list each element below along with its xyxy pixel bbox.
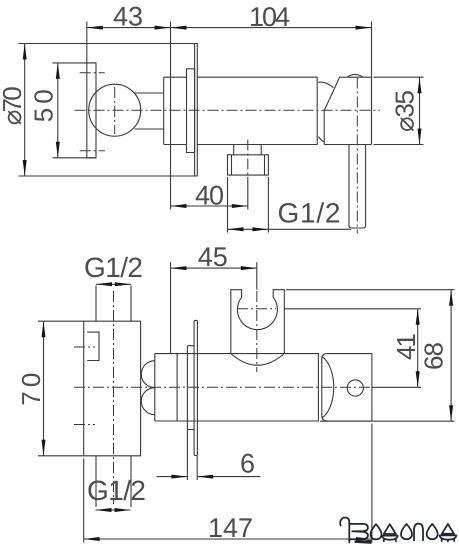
- logo letter a triangle-dish2: [442, 524, 454, 534]
- hex facet lines: [232, 155, 265, 175]
- svg-text:68: 68: [419, 342, 449, 370]
- valve body vertical centerline: [113, 291, 115, 504]
- svg-text:G1/2: G1/2: [278, 198, 341, 229]
- holder horizontal centerline: [237, 308, 276, 310]
- elbow hemisphere arc: [322, 357, 334, 419]
- svg-text:147: 147: [208, 513, 253, 543]
- logo letter g arch: [414, 524, 423, 541]
- dimension 40 line: [171, 204, 248, 208]
- body cylinder front: [177, 354, 318, 421]
- holder saddle arc: [231, 354, 284, 366]
- plate screw tick upper: [80, 72, 105, 74]
- logo letter o drop2: [401, 524, 412, 539]
- extension line holder right end: [371, 22, 373, 145]
- knob stem lower line: [135, 128, 164, 130]
- flange disc 2: [187, 69, 195, 153]
- extension lines 70: [38, 320, 84, 322]
- knob stem upper line: [135, 92, 164, 94]
- swivel ball lower: [141, 388, 155, 415]
- extension line 147 right: [371, 424, 373, 543]
- sprayer top button arc: [347, 74, 363, 77]
- svg-text:⌀70: ⌀70: [0, 86, 27, 125]
- elbow end piece: [322, 354, 372, 421]
- logo letter V bowl: [349, 524, 368, 539]
- wall plate lower view: [194, 320, 197, 455]
- svg-text:41: 41: [391, 333, 421, 360]
- dimension 6: [157, 475, 261, 479]
- knob ball vertical centerline: [114, 87, 116, 134]
- outlet hex nut: [228, 155, 269, 175]
- centerline extension to dim41: [372, 386, 421, 388]
- outlet neck: [234, 145, 262, 155]
- sprayer head nose arc bottom: [318, 137, 323, 142]
- svg-text:6: 6: [240, 449, 255, 479]
- dimension 147 line: [84, 537, 372, 541]
- extension lines 50: [53, 62, 97, 64]
- flange disc d70: [195, 44, 198, 177]
- dimension 45 line: [171, 266, 257, 270]
- logo letter l triangle-dish1: [384, 524, 396, 534]
- sprayer head nose arc top: [318, 82, 333, 88]
- plate screw tick lower: [80, 150, 105, 152]
- svg-text:45: 45: [198, 242, 228, 272]
- svg-text:G1/2: G1/2: [87, 475, 146, 506]
- svg-text:43: 43: [113, 2, 143, 32]
- extension lines 68: [286, 289, 455, 291]
- holder vertical centerline: [256, 291, 258, 372]
- holder center reference line: [284, 308, 421, 310]
- sprayer head outline: [324, 77, 371, 144]
- extension lines d35: [374, 76, 424, 78]
- extension line wall plane lower: [170, 262, 172, 353]
- valve body tick upper: [74, 346, 95, 348]
- svg-text:⌀35: ⌀35: [390, 90, 420, 132]
- dimension G1/2 top inlet: [96, 282, 131, 286]
- dimension d35 line: [418, 77, 422, 144]
- logo wedge bar: [355, 540, 372, 544]
- dimension 43/104 line: [87, 26, 372, 30]
- extension line 6 right: [196, 456, 198, 480]
- elbow screw hole: [347, 380, 363, 396]
- valve body front: [84, 321, 141, 456]
- extension lines d70: [19, 43, 198, 45]
- dimension 70 line: [42, 321, 46, 456]
- dimension G1/2 outlet: [228, 227, 351, 231]
- dimension 41 line: [416, 309, 420, 388]
- extension line knob left: [86, 22, 88, 63]
- svg-text:G1/2: G1/2: [84, 252, 143, 283]
- outlet centerline: [247, 140, 249, 178]
- sprayer handle centerline: [356, 78, 358, 234]
- inlet pipe bottom: [96, 456, 131, 507]
- extension line 6 left: [186, 430, 188, 481]
- knob escutcheon plate: [87, 63, 96, 158]
- swivel ball upper: [141, 361, 155, 388]
- valve body tick lower: [74, 424, 95, 426]
- logo letter o drop1: [371, 524, 382, 539]
- sprayer handle: [349, 145, 366, 229]
- outlet center extension: [247, 177, 249, 210]
- logo letter d drop3: [427, 524, 438, 539]
- knob ball: [89, 84, 141, 136]
- hub block behind wall: [164, 77, 187, 144]
- logo letter V swan curl: [340, 517, 349, 542]
- dimension G1/2 bottom inlet: [96, 508, 131, 512]
- inlet pipe top: [96, 286, 131, 322]
- main centerline top view: [75, 109, 381, 111]
- extension line holder center: [256, 262, 258, 290]
- svg-text:40: 40: [195, 181, 224, 211]
- extension lines G1/2 outlet: [227, 177, 229, 233]
- wall hub disc lower view: [187, 346, 194, 430]
- extension line wall plane upper: [170, 22, 172, 210]
- shower holder bracket: [231, 290, 284, 354]
- extension line 147 left: [83, 459, 85, 543]
- valve body detail boss: [87, 332, 99, 360]
- dimension 50 line: [56, 63, 60, 158]
- faucet body cylinder: [197, 77, 317, 144]
- main centerline bottom view: [74, 386, 372, 388]
- connector hub rect: [155, 354, 177, 421]
- svg-text:104: 104: [249, 2, 290, 32]
- dimension 68 line: [449, 290, 453, 422]
- dimension d70 line: [23, 44, 27, 177]
